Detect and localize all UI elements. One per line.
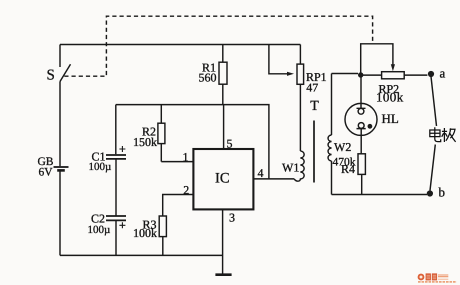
svg-text:W1: W1 [282,161,299,175]
battery GB [54,167,69,170]
wire C1 to C2 [115,159,117,216]
svg-text:4: 4 [258,166,264,180]
potentiometer RP1 [269,45,304,85]
transformer T winding W1 [294,84,304,181]
ground [215,273,231,276]
wire left rail middle [59,82,61,167]
svg-text:b: b [439,185,446,200]
svg-text:100k: 100k [376,90,404,105]
wire pin2 [163,195,194,217]
resistor R4 [358,135,365,194]
wire left rail lower [59,172,61,256]
node a [428,71,434,77]
svg-text:560: 560 [199,70,217,84]
resistor R1 [219,45,227,105]
svg-text:150k: 150k [133,135,157,149]
svg-text:5: 5 [227,137,233,151]
svg-text:2: 2 [183,183,189,197]
label electrode (dianji) drawn glyphs [430,127,456,142]
capacitor C1 [106,105,126,159]
lamp HL [345,75,377,135]
svg-text:100k: 100k [133,226,157,240]
resistor R3 [159,216,166,255]
wire bottom rail [60,254,223,256]
wire pin4 [253,178,294,180]
svg-text:100µ: 100µ [88,224,111,236]
wire top rail [60,44,300,46]
svg-text:6V: 6V [39,167,54,179]
wire dashed mechanical link [64,16,372,76]
svg-text:R4: R4 [341,162,355,176]
wire pin5 [223,105,225,149]
wire inner top rail [116,105,269,179]
transformer T core [313,121,315,183]
svg-text:1: 1 [183,150,189,164]
svg-text:100µ: 100µ [89,161,112,173]
svg-text:S: S [47,68,55,84]
svg-text:T: T [310,99,319,114]
transformer T winding W2 [328,74,331,195]
svg-text:HL: HL [382,111,399,126]
switch S [60,64,71,81]
watermark logo [418,273,457,282]
wire pin1 [161,161,193,163]
resistor R2 [158,105,165,162]
svg-text:3: 3 [229,211,235,225]
svg-text:W2: W2 [334,140,351,154]
wire pin3 [222,209,224,274]
node junction dot [358,72,363,77]
wire W2 top to junction [332,73,359,75]
svg-text:a: a [440,66,446,81]
svg-text:IC: IC [215,171,230,187]
wire bottom right rail [332,194,428,196]
wire left rail upper [59,45,61,68]
potentiometer RP2 [361,44,428,79]
node b [427,190,433,196]
capacitor C2 [106,216,126,228]
op-amp U1 IC box [193,149,253,209]
wire C2 to bottom rail [115,220,117,255]
svg-text:47: 47 [306,81,318,95]
wire electrode line [430,77,437,191]
